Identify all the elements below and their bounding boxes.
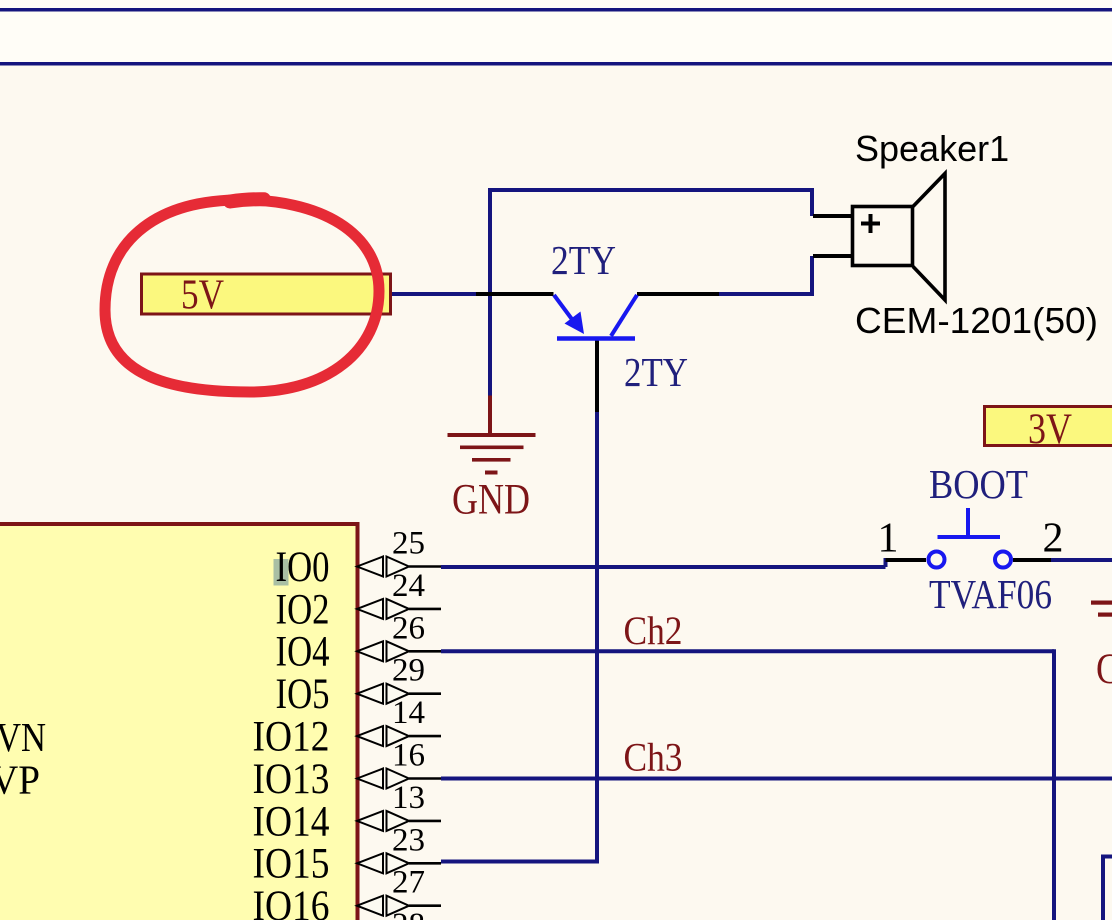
svg-text:1: 1 <box>878 516 899 562</box>
svg-text:VP: VP <box>0 757 40 803</box>
svg-text:24: 24 <box>392 568 425 604</box>
svg-text:Ch2: Ch2 <box>624 608 683 653</box>
svg-text:IO12: IO12 <box>253 714 330 761</box>
svg-text:IO13: IO13 <box>253 756 330 803</box>
svg-text:BOOT: BOOT <box>929 461 1028 507</box>
svg-text:29: 29 <box>392 653 425 689</box>
svg-text:2TY: 2TY <box>551 237 616 283</box>
svg-text:Speaker1: Speaker1 <box>855 128 1009 169</box>
svg-text:28: 28 <box>392 907 425 920</box>
svg-text:13: 13 <box>392 780 425 816</box>
svg-text:16: 16 <box>392 738 425 774</box>
svg-text:23: 23 <box>392 822 425 858</box>
svg-text:CEM-1201(50): CEM-1201(50) <box>855 300 1098 341</box>
svg-text:14: 14 <box>392 695 425 731</box>
svg-text:VN: VN <box>0 714 46 760</box>
svg-text:25: 25 <box>392 526 425 562</box>
svg-text:IO5: IO5 <box>276 671 330 718</box>
svg-text:3V: 3V <box>1028 406 1072 453</box>
svg-text:IO15: IO15 <box>253 841 330 888</box>
svg-text:5V: 5V <box>181 273 224 319</box>
svg-text:IO0: IO0 <box>276 544 330 591</box>
svg-text:GND: GND <box>452 477 530 524</box>
svg-text:Ch3: Ch3 <box>624 734 683 779</box>
svg-text:27: 27 <box>392 865 425 901</box>
svg-text:26: 26 <box>392 610 425 646</box>
svg-text:IO2: IO2 <box>276 586 330 633</box>
svg-text:IO4: IO4 <box>276 629 330 676</box>
svg-text:2: 2 <box>1043 516 1064 562</box>
svg-text:IO16: IO16 <box>253 883 330 920</box>
svg-text:TVAF06: TVAF06 <box>929 571 1052 617</box>
svg-text:IO14: IO14 <box>253 798 330 845</box>
svg-text:2TY: 2TY <box>624 349 688 395</box>
svg-text:GND: GND <box>1096 646 1112 693</box>
